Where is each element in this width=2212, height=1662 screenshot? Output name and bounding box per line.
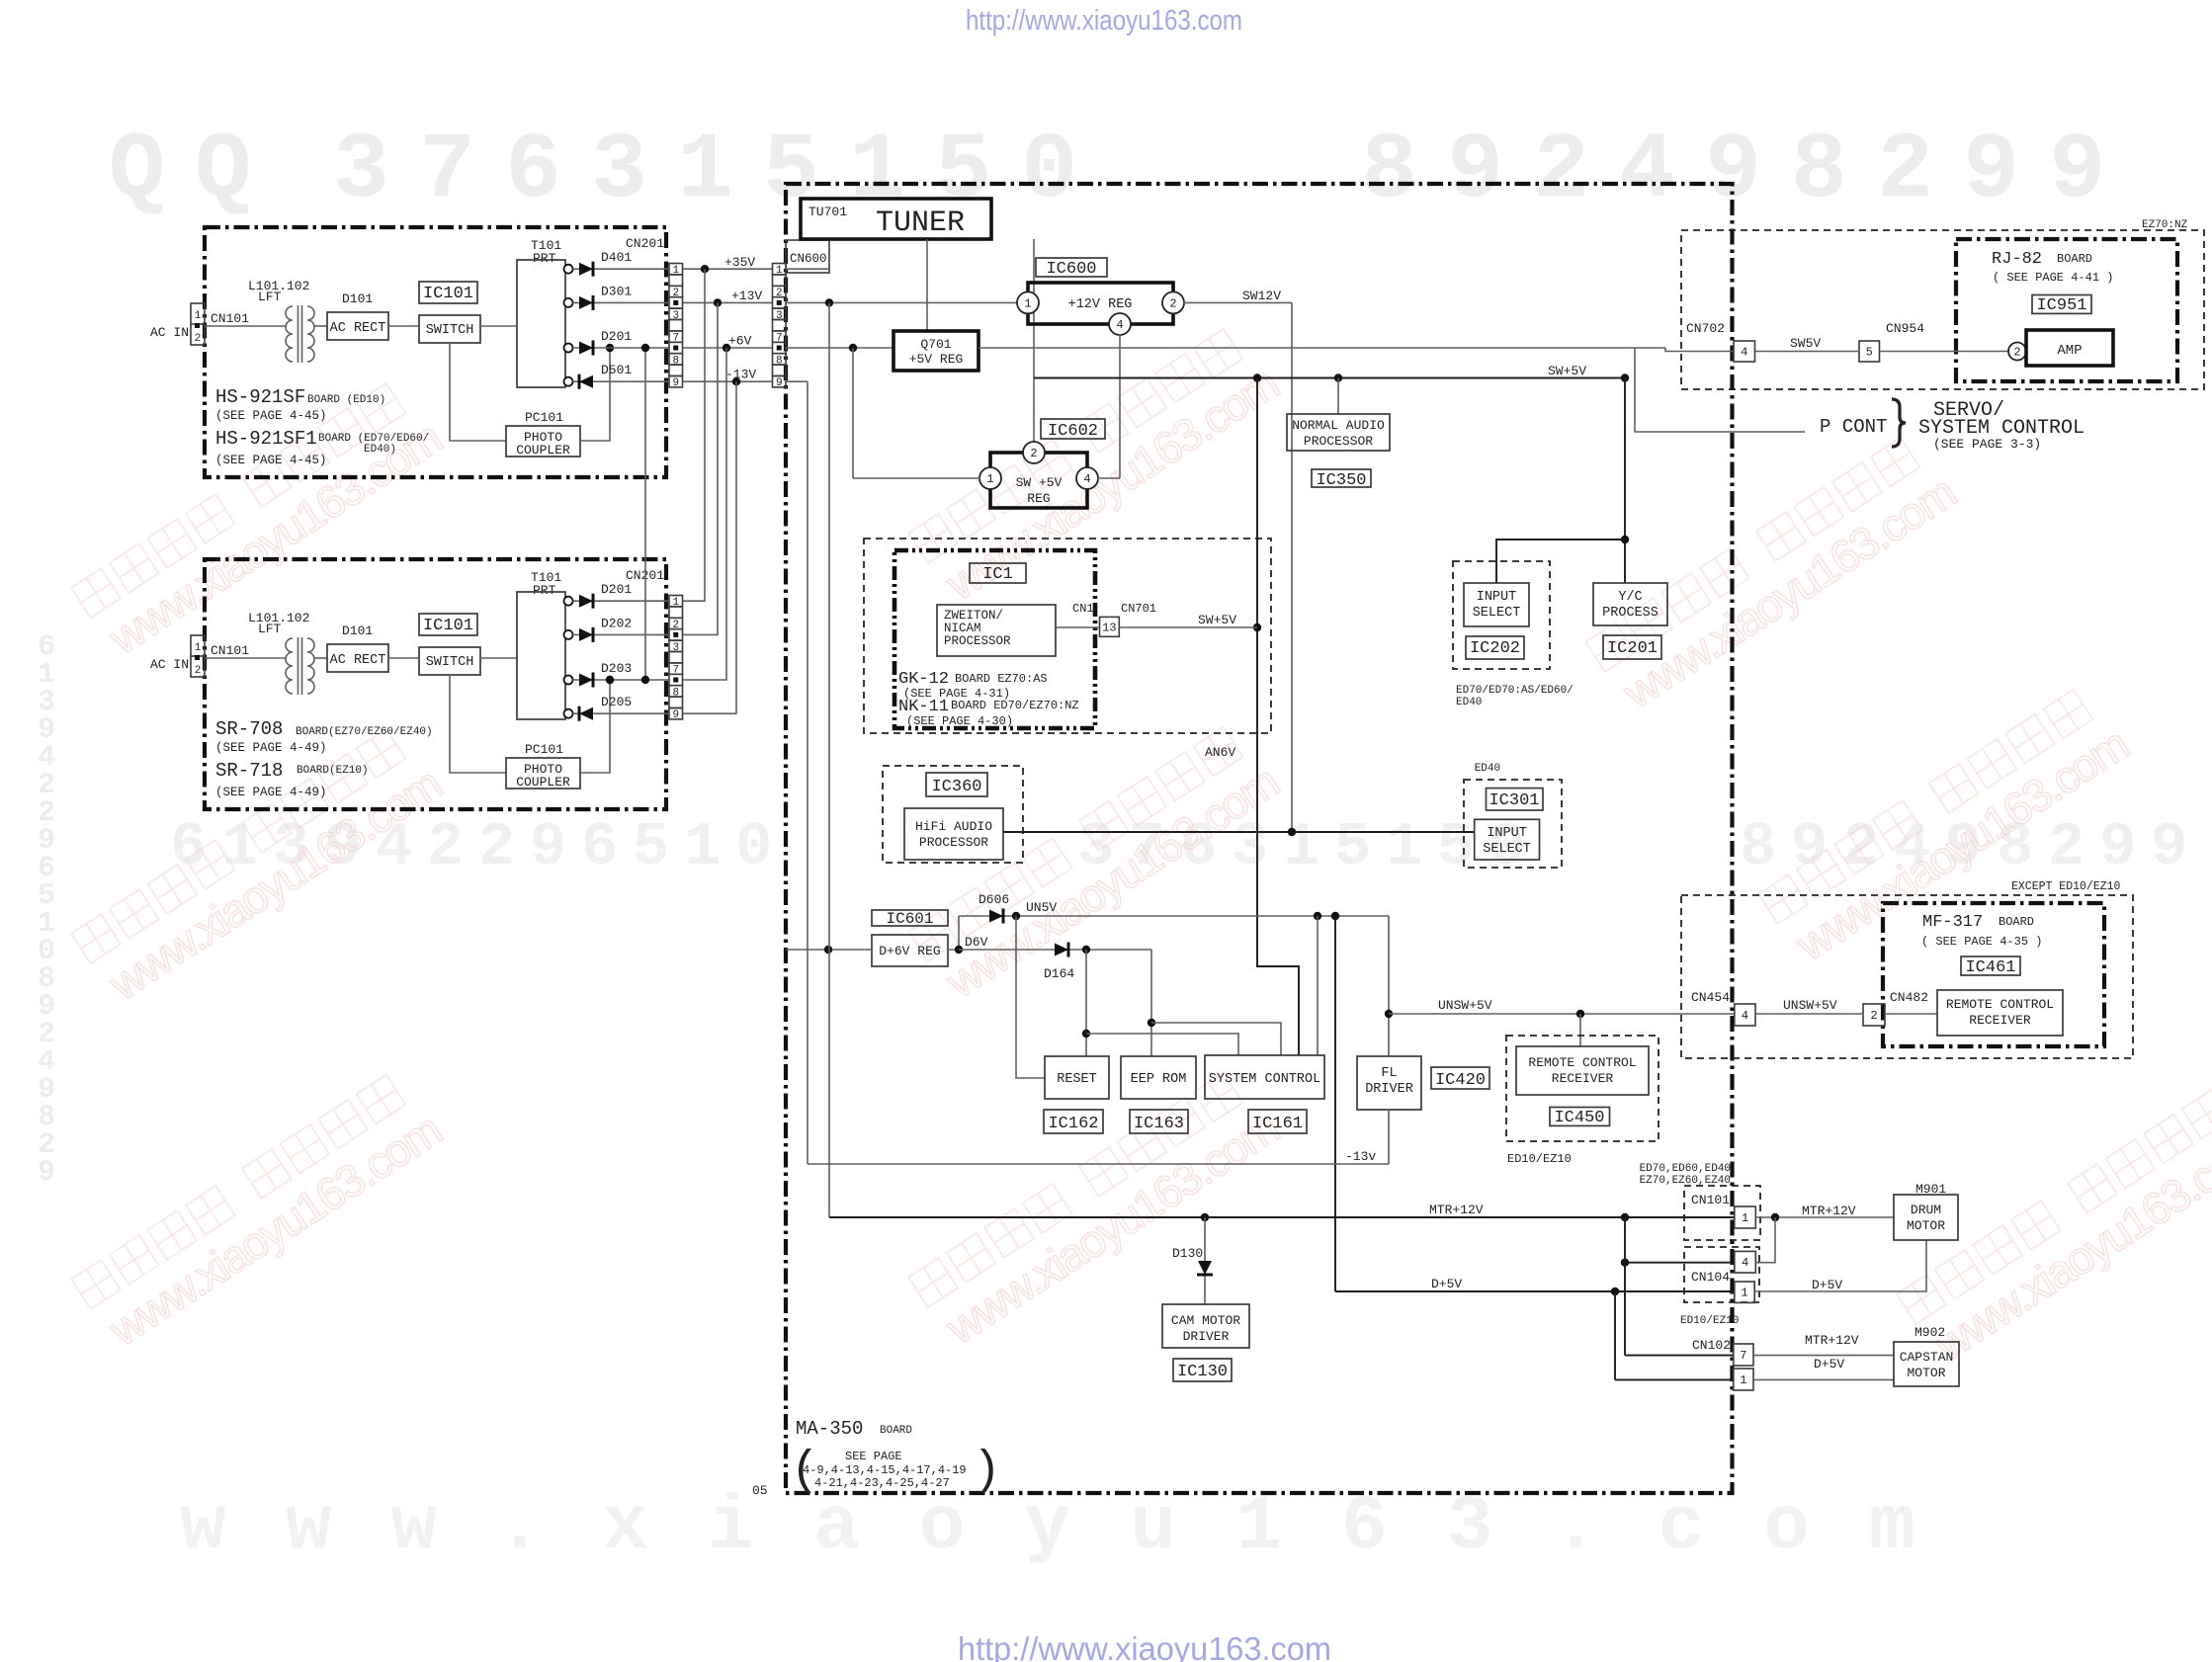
svg-text:2: 2: [195, 665, 202, 677]
svg-text:M902: M902: [1914, 1325, 1945, 1340]
svg-text:HS-921SF1: HS-921SF1: [215, 428, 317, 450]
svg-text:MTR+12V: MTR+12V: [1805, 1333, 1859, 1348]
svg-text:UNSW+5V: UNSW+5V: [1783, 998, 1837, 1013]
svg-text:TU701: TU701: [808, 205, 847, 219]
svg-text:ED10/EZ10: ED10/EZ10: [1680, 1315, 1739, 1327]
svg-text:AN6V: AN6V: [1205, 745, 1235, 760]
svg-text:HS-921SF: HS-921SF: [215, 386, 305, 408]
svg-text:SWITCH: SWITCH: [426, 655, 474, 670]
svg-text:D201: D201: [601, 329, 632, 344]
svg-text:IC163: IC163: [1134, 1115, 1184, 1133]
svg-text:Y/C: Y/C: [1618, 590, 1642, 605]
svg-text:9: 9: [672, 709, 679, 721]
svg-text:(SEE PAGE 4-30): (SEE PAGE 4-30): [906, 714, 1013, 728]
svg-text:CN482: CN482: [1890, 990, 1928, 1005]
svg-text:9: 9: [776, 377, 783, 389]
svg-text:+12V REG: +12V REG: [1068, 297, 1133, 312]
svg-text:SR-718: SR-718: [215, 760, 283, 782]
svg-text:DRIVER: DRIVER: [1365, 1082, 1413, 1097]
svg-text:D202: D202: [601, 616, 632, 630]
svg-text:IC161: IC161: [1252, 1115, 1303, 1133]
svg-text:RJ-82: RJ-82: [1992, 250, 2042, 269]
svg-text:UNSW+5V: UNSW+5V: [1438, 998, 1492, 1013]
svg-text:IC350: IC350: [1316, 471, 1366, 490]
svg-text:CN1: CN1: [1072, 602, 1094, 616]
svg-text:DRIVER: DRIVER: [1183, 1329, 1230, 1344]
svg-text:ED70,ED60,ED40: ED70,ED60,ED40: [1640, 1163, 1731, 1175]
svg-text:D+5V: D+5V: [1812, 1278, 1842, 1292]
svg-text:CN954: CN954: [1886, 321, 1924, 336]
svg-text:SWITCH: SWITCH: [426, 323, 474, 338]
svg-text:IC602: IC602: [1048, 422, 1098, 441]
svg-text:+5V REG: +5V REG: [909, 352, 964, 367]
svg-text:MA-350: MA-350: [796, 1418, 863, 1440]
svg-text:PROCESSOR: PROCESSOR: [1304, 434, 1373, 449]
svg-text:IC1: IC1: [982, 565, 1013, 584]
svg-text:4-21,4-23,4-25,4-27: 4-21,4-23,4-25,4-27: [814, 1476, 950, 1490]
svg-text:1: 1: [1024, 296, 1031, 310]
svg-text:D201: D201: [601, 582, 632, 597]
svg-text:D164: D164: [1044, 966, 1074, 981]
svg-text:2: 2: [2013, 346, 2020, 360]
svg-text:IC601: IC601: [886, 910, 933, 928]
svg-text:ED70/ED70:AS/ED60/: ED70/ED70:AS/ED60/: [1456, 685, 1574, 697]
svg-text:P CONT: P CONT: [1820, 416, 1887, 438]
svg-text:SW+5V: SW+5V: [1198, 613, 1236, 627]
svg-text:1: 1: [195, 310, 202, 322]
svg-text:SELECT: SELECT: [1483, 842, 1531, 857]
svg-text:IC450: IC450: [1554, 1109, 1604, 1127]
svg-text:ED40): ED40): [364, 444, 396, 456]
svg-text:PROCESSOR: PROCESSOR: [919, 835, 988, 850]
svg-text:SEE PAGE: SEE PAGE: [845, 1450, 902, 1463]
svg-text:D501: D501: [601, 363, 632, 377]
svg-text:D+5V: D+5V: [1814, 1357, 1844, 1371]
svg-text:MF-317: MF-317: [1922, 913, 1983, 932]
svg-text:CN101: CN101: [1691, 1193, 1730, 1207]
svg-text:http://www.xiaoyu163.com: http://www.xiaoyu163.com: [966, 5, 1242, 37]
svg-text:IC101: IC101: [423, 617, 473, 635]
svg-text:CN104: CN104: [1691, 1270, 1730, 1285]
svg-text:SR-708: SR-708: [215, 718, 283, 740]
svg-text:AC IN: AC IN: [150, 325, 189, 340]
svg-text:CN102: CN102: [1692, 1338, 1731, 1353]
svg-text:-13v: -13v: [1345, 1149, 1376, 1164]
svg-text:BOARD: BOARD: [880, 1425, 912, 1437]
svg-text:): ): [973, 1445, 1001, 1498]
svg-text:1: 1: [1740, 1373, 1746, 1387]
svg-text:NICAM: NICAM: [944, 622, 981, 635]
svg-text:D130: D130: [1172, 1246, 1203, 1261]
svg-text:2: 2: [1870, 1009, 1877, 1023]
svg-text:13: 13: [1102, 621, 1116, 634]
svg-text:D205: D205: [601, 695, 632, 709]
svg-text:D401: D401: [601, 250, 632, 265]
svg-text:REG: REG: [1027, 491, 1050, 506]
svg-text:IC201: IC201: [1607, 639, 1658, 658]
svg-text:IC461: IC461: [1965, 958, 2015, 977]
svg-text:INPUT: INPUT: [1487, 826, 1527, 841]
svg-text:(SEE PAGE 4-49): (SEE PAGE 4-49): [215, 741, 327, 755]
svg-text:SYSTEM CONTROL: SYSTEM CONTROL: [1209, 1072, 1320, 1087]
svg-text:CN702: CN702: [1686, 321, 1725, 336]
svg-text:http://www.xiaoyu163.com: http://www.xiaoyu163.com: [958, 1630, 1331, 1662]
svg-text:ZWEITON/: ZWEITON/: [944, 609, 1003, 623]
svg-text:RECEIVER: RECEIVER: [1552, 1071, 1614, 1086]
svg-text:CAPSTAN: CAPSTAN: [1900, 1350, 1954, 1365]
svg-text:1: 1: [1741, 1287, 1747, 1300]
svg-text:05: 05: [752, 1483, 768, 1498]
svg-text:IC360: IC360: [931, 778, 981, 796]
svg-text:IC600: IC600: [1046, 260, 1096, 279]
svg-text:IC420: IC420: [1435, 1071, 1486, 1090]
svg-text:EXCEPT ED10/EZ10: EXCEPT ED10/EZ10: [2011, 880, 2121, 893]
svg-text:1: 1: [195, 642, 202, 654]
svg-text:4: 4: [1083, 472, 1090, 486]
svg-text:AMP: AMP: [2057, 343, 2082, 359]
svg-text:COUPLER: COUPLER: [516, 443, 570, 457]
svg-text:CN101: CN101: [211, 311, 249, 326]
svg-text:PROCESSOR: PROCESSOR: [944, 634, 1011, 648]
svg-text:IC101: IC101: [423, 285, 473, 303]
svg-text:ED40: ED40: [1456, 697, 1482, 708]
svg-text:7: 7: [1740, 1349, 1746, 1363]
svg-text:D301: D301: [601, 284, 632, 298]
svg-text:PC101: PC101: [525, 742, 563, 757]
svg-text:5: 5: [1866, 346, 1873, 360]
svg-text:SELECT: SELECT: [1473, 606, 1521, 621]
svg-text:LFT: LFT: [258, 622, 282, 636]
svg-text:CN101: CN101: [211, 643, 249, 658]
svg-text:NORMAL AUDIO: NORMAL AUDIO: [1292, 418, 1385, 433]
svg-text:(SEE PAGE 4-49): (SEE PAGE 4-49): [215, 786, 327, 799]
svg-text:CN454: CN454: [1691, 990, 1730, 1005]
svg-text:BOARD(EZ10): BOARD(EZ10): [297, 765, 369, 777]
svg-text:( SEE PAGE 4-41 ): ( SEE PAGE 4-41 ): [1993, 271, 2113, 285]
svg-text:SW12V: SW12V: [1242, 289, 1281, 303]
svg-text:HiFi AUDIO: HiFi AUDIO: [915, 819, 992, 834]
svg-text:www.xiaoyu163.com: www.xiaoyu163.com: [180, 1484, 1975, 1571]
svg-text:IC951: IC951: [2036, 296, 2086, 315]
svg-text:CN201: CN201: [626, 236, 664, 251]
svg-text:(SEE PAGE 4-45): (SEE PAGE 4-45): [215, 454, 327, 467]
svg-text:AC IN: AC IN: [150, 657, 189, 672]
svg-text:D+6V REG: D+6V REG: [879, 944, 940, 958]
svg-text:RECEIVER: RECEIVER: [1969, 1013, 2031, 1028]
svg-text:+13V: +13V: [731, 289, 762, 303]
svg-text:9: 9: [672, 377, 679, 389]
svg-text:+35V: +35V: [724, 255, 755, 270]
svg-text:SW5V: SW5V: [1790, 336, 1821, 351]
svg-text:D606: D606: [978, 892, 1009, 907]
svg-text:REMOTE CONTROL: REMOTE CONTROL: [1946, 997, 2054, 1012]
svg-text:2: 2: [1169, 296, 1176, 310]
svg-text:CN701: CN701: [1121, 602, 1156, 616]
svg-text:D+5V: D+5V: [1431, 1277, 1462, 1291]
svg-text:BOARD(EZ70/EZ60/EZ40): BOARD(EZ70/EZ60/EZ40): [296, 726, 433, 738]
svg-text:(: (: [791, 1445, 819, 1498]
svg-text:TUNER: TUNER: [876, 207, 965, 240]
svg-text:(SEE PAGE 3-3): (SEE PAGE 3-3): [1933, 437, 2041, 452]
svg-text:(SEE PAGE 4-45): (SEE PAGE 4-45): [215, 409, 327, 423]
svg-text:CN600: CN600: [790, 252, 827, 266]
svg-text:ED40: ED40: [1475, 763, 1500, 775]
svg-text:BOARD: BOARD: [1999, 915, 2034, 929]
svg-text:4: 4: [1742, 1009, 1748, 1023]
svg-text:IC301: IC301: [1489, 791, 1539, 810]
svg-text:LFT: LFT: [258, 290, 282, 304]
svg-text:PROCESS: PROCESS: [1602, 606, 1659, 621]
svg-text:1: 1: [1742, 1211, 1748, 1225]
svg-text:PRT: PRT: [533, 583, 556, 598]
svg-text:4: 4: [1741, 346, 1747, 360]
svg-text:CAM MOTOR: CAM MOTOR: [1171, 1313, 1240, 1328]
svg-text:SW+5V: SW+5V: [1548, 364, 1586, 378]
svg-text:AC RECT: AC RECT: [330, 321, 386, 336]
svg-text:( SEE PAGE 4-35 ): ( SEE PAGE 4-35 ): [1921, 935, 2042, 949]
svg-text:BOARD ED70/EZ70:NZ: BOARD ED70/EZ70:NZ: [951, 699, 1079, 712]
svg-text:ED10/EZ10: ED10/EZ10: [1507, 1152, 1572, 1166]
svg-text:MTR+12V: MTR+12V: [1802, 1204, 1856, 1218]
svg-text:REMOTE CONTROL: REMOTE CONTROL: [1528, 1055, 1636, 1070]
svg-text:MTR+12V: MTR+12V: [1429, 1203, 1484, 1217]
svg-text:1: 1: [986, 472, 993, 486]
svg-text:EEP ROM: EEP ROM: [1131, 1072, 1187, 1087]
svg-text:PC101: PC101: [525, 410, 563, 425]
svg-text:SW +5V: SW +5V: [1016, 475, 1063, 490]
svg-text:RESET: RESET: [1057, 1072, 1097, 1087]
svg-text:BOARD: BOARD: [2057, 252, 2092, 266]
svg-text:2: 2: [1030, 447, 1037, 460]
svg-text:IC162: IC162: [1048, 1115, 1098, 1133]
svg-text:BOARD (ED10): BOARD (ED10): [307, 394, 385, 406]
svg-text:QQ: QQ: [109, 118, 281, 224]
svg-text:BOARD EZ70:AS: BOARD EZ70:AS: [955, 672, 1048, 686]
svg-text:61394229651089249829: 61394229651089249829: [38, 630, 55, 1190]
svg-text:MOTOR: MOTOR: [1907, 1366, 1945, 1380]
svg-text:Q701: Q701: [920, 337, 951, 352]
svg-text:IC130: IC130: [1177, 1363, 1228, 1381]
svg-text:DRUM: DRUM: [1911, 1203, 1941, 1217]
svg-text:MOTOR: MOTOR: [1907, 1218, 1945, 1233]
svg-text:D203: D203: [601, 661, 632, 676]
svg-text:D6V: D6V: [965, 935, 988, 950]
svg-text:4-9,4-13,4-15,4-17,4-19: 4-9,4-13,4-15,4-17,4-19: [803, 1463, 967, 1477]
svg-text:D101: D101: [342, 291, 373, 306]
svg-text:-13V: -13V: [725, 368, 756, 382]
svg-text:892498299: 892498299: [1361, 118, 2135, 224]
svg-text:2: 2: [195, 333, 202, 345]
svg-text:AC RECT: AC RECT: [330, 653, 386, 668]
svg-text:D101: D101: [342, 623, 373, 638]
svg-text:FL: FL: [1381, 1066, 1397, 1081]
svg-text:IC202: IC202: [1470, 639, 1520, 658]
svg-text:PRT: PRT: [533, 251, 556, 266]
svg-text:UN5V: UN5V: [1026, 900, 1057, 915]
svg-text:COUPLER: COUPLER: [516, 775, 570, 789]
svg-text:4: 4: [1742, 1256, 1748, 1270]
svg-text:INPUT: INPUT: [1477, 590, 1517, 605]
svg-text:+6V: +6V: [728, 334, 752, 349]
svg-text:4: 4: [1116, 318, 1123, 332]
